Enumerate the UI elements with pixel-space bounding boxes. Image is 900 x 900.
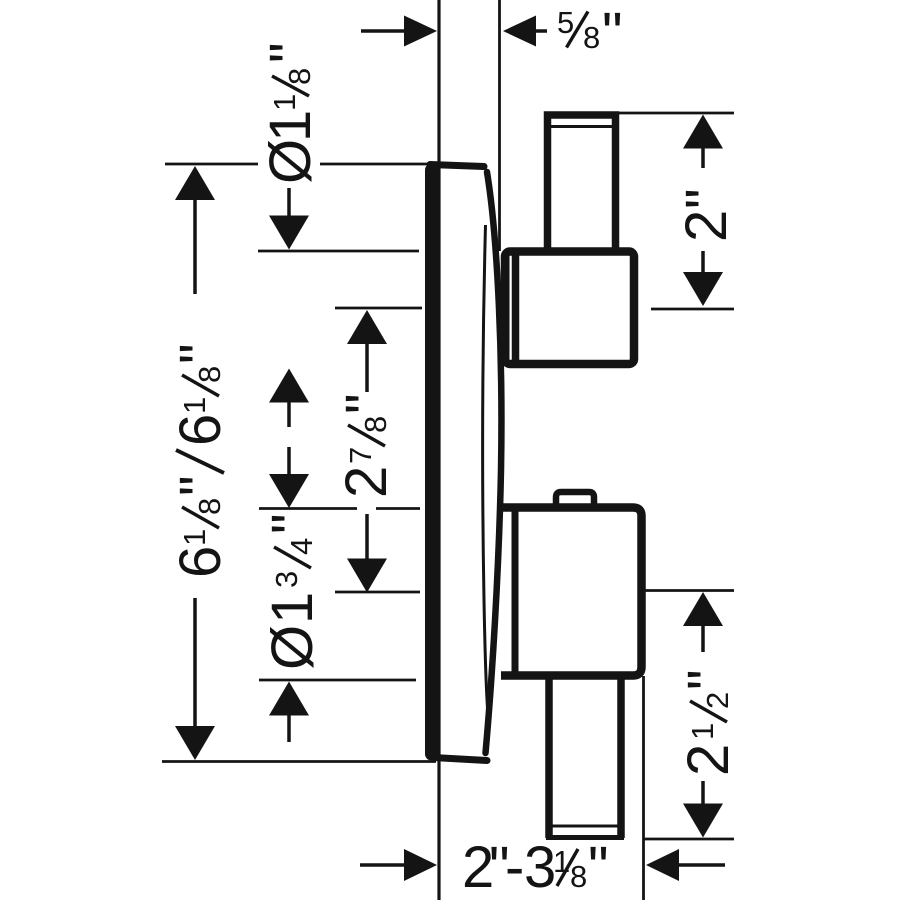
dimension line y680 bbox=[259, 679, 416, 682]
2.5in down arrow bbox=[683, 781, 723, 838]
svg-text:": " bbox=[602, 1, 623, 66]
svg-text:8: 8 bbox=[192, 498, 227, 515]
escutcheon plate left edge bbox=[425, 170, 438, 754]
svg-text:2: 2 bbox=[334, 466, 399, 498]
svg-text:1: 1 bbox=[553, 844, 570, 879]
svg-text:7: 7 bbox=[343, 447, 378, 464]
svg-text:6: 6 bbox=[168, 414, 233, 446]
dimension line 2.5in top y590 bbox=[644, 589, 734, 592]
extension line wall front face bbox=[498, 0, 501, 251]
2in up arrow bbox=[683, 115, 723, 169]
dimension line y592 left bbox=[335, 591, 420, 594]
Ø 1 1/8 up arrow bbox=[269, 369, 309, 428]
lower handle sleeve joint bbox=[512, 509, 519, 676]
2 7/8 up arrow bbox=[347, 310, 387, 392]
bottom dim right-pointing arrow bbox=[360, 849, 437, 881]
upper handle body bbox=[505, 252, 634, 365]
svg-text:6: 6 bbox=[168, 546, 233, 578]
dimension line 2in top y113 bbox=[618, 112, 734, 115]
svg-text:": " bbox=[168, 475, 233, 496]
svg-text:8: 8 bbox=[570, 859, 587, 894]
escutcheon plate front face bbox=[486, 172, 502, 753]
6 1/8 dim down arrow bbox=[175, 598, 215, 760]
svg-text:1: 1 bbox=[177, 397, 212, 414]
extension line handle right edge bbox=[642, 676, 645, 900]
upper handle stem bbox=[548, 115, 616, 254]
escutcheon plate face inner line bbox=[483, 225, 488, 708]
dimension line 2.5in bottom y839 bbox=[644, 838, 734, 841]
Ø 1 3/4 down arrow bbox=[269, 447, 309, 508]
dimension 5/8 right arrow (pointing left) bbox=[503, 16, 547, 47]
svg-text:": " bbox=[588, 835, 609, 900]
label 6 1/8" / 6 1/8" bbox=[168, 343, 233, 578]
lower handle tab bbox=[556, 492, 594, 506]
upper handle sleeve joint bbox=[507, 253, 516, 363]
lower handle body bbox=[501, 508, 642, 676]
svg-text:1: 1 bbox=[260, 592, 325, 624]
dimension line y251 bbox=[258, 250, 419, 253]
lower handle stem bbox=[546, 676, 624, 838]
svg-text:Ø: Ø bbox=[258, 139, 323, 184]
svg-text:1: 1 bbox=[258, 110, 323, 142]
Ø 1 1/8 down arrow bbox=[269, 188, 309, 250]
label Ø 1 3/4" bbox=[260, 513, 325, 670]
dimension line y308 left bbox=[335, 307, 422, 310]
svg-text:8: 8 bbox=[282, 68, 317, 85]
svg-text:2: 2 bbox=[700, 692, 735, 709]
label 2 7/8" bbox=[334, 393, 399, 498]
svg-text:3: 3 bbox=[269, 571, 304, 588]
dimension line 2in bottom y309 bbox=[651, 308, 734, 311]
svg-text:": " bbox=[168, 343, 233, 364]
2in down arrow bbox=[683, 251, 723, 306]
svg-text:8: 8 bbox=[583, 20, 600, 55]
svg-text:1: 1 bbox=[177, 529, 212, 546]
svg-text:": " bbox=[674, 188, 739, 209]
wall line bbox=[437, 0, 440, 900]
svg-text:3: 3 bbox=[524, 835, 556, 900]
lower stem inner line bbox=[549, 825, 621, 828]
dimension line plate top y164 bbox=[165, 163, 433, 166]
label 2" bbox=[674, 188, 739, 242]
svg-text:2: 2 bbox=[674, 210, 739, 242]
dimension line plate bottom y761 bbox=[162, 760, 436, 763]
label 2 1/2" bbox=[676, 669, 741, 776]
svg-text:Ø: Ø bbox=[260, 625, 325, 670]
svg-text:4: 4 bbox=[284, 538, 319, 555]
label Ø 1 1/8" bbox=[258, 42, 323, 184]
2 7/8 down arrow bbox=[347, 514, 387, 593]
escutcheon plate bottom edge bbox=[433, 758, 487, 761]
2.5in up arrow bbox=[683, 592, 723, 652]
svg-text:8: 8 bbox=[192, 366, 227, 383]
svg-text:5: 5 bbox=[557, 5, 574, 40]
svg-text:8: 8 bbox=[358, 416, 393, 433]
dimension 5/8 left arrow (pointing right) bbox=[361, 16, 437, 47]
svg-text:": " bbox=[676, 669, 741, 690]
bottom dim left-pointing arrow bbox=[646, 849, 725, 881]
svg-text:1: 1 bbox=[685, 723, 720, 740]
escutcheon plate top edge bbox=[430, 165, 484, 167]
Ø 1 3/4 up arrow bbox=[269, 682, 309, 743]
svg-text:": " bbox=[260, 513, 325, 534]
6 1/8 dim up arrow bbox=[175, 166, 215, 294]
svg-text:": " bbox=[258, 42, 323, 63]
svg-text:2: 2 bbox=[676, 744, 741, 776]
svg-text:-: - bbox=[505, 835, 524, 900]
label 5/8" bbox=[557, 1, 623, 66]
label 2"-3 1/8" bbox=[462, 835, 609, 900]
svg-text:": " bbox=[334, 393, 399, 414]
svg-text:1: 1 bbox=[267, 94, 302, 111]
dimension line y508 bbox=[259, 507, 420, 510]
upper stem inner line bbox=[547, 125, 616, 128]
